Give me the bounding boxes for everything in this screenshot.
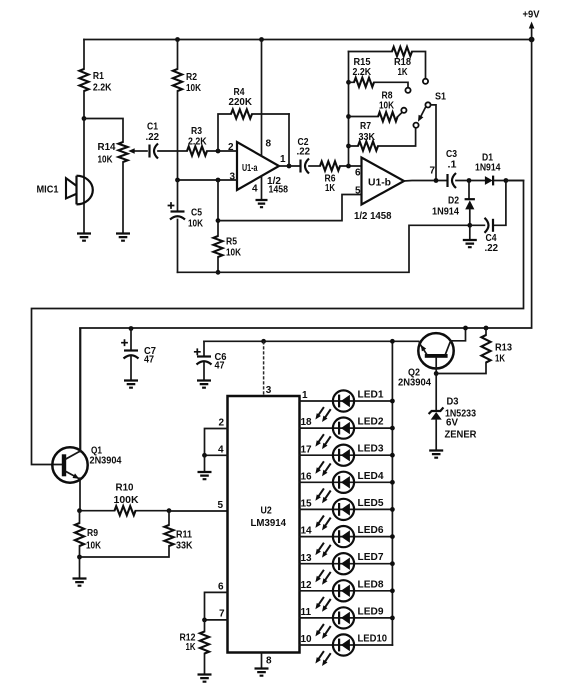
node pin3-R5 junction	[216, 178, 221, 183]
wire C2 to R6	[309, 165, 320, 167]
svg-text:R14: R14	[98, 142, 116, 153]
ground under D2	[469, 225, 471, 240]
node +9V rail right junction	[529, 37, 535, 43]
resistor R2	[175, 37, 180, 42]
svg-text:10K: 10K	[379, 101, 395, 112]
node LED1 bus junction	[390, 399, 395, 404]
node R10-R11 junction	[167, 508, 172, 513]
svg-text:1: 1	[280, 154, 286, 165]
resistor R6	[320, 161, 340, 170]
node pin3-R2 junction	[175, 178, 180, 183]
capacitor C6	[203, 341, 205, 380]
svg-text:1N914: 1N914	[432, 207, 459, 218]
potentiometer R14	[118, 142, 127, 162]
ground under D3	[429, 451, 443, 458]
wire gain-select chain vertical	[348, 52, 350, 167]
svg-text:220K: 220K	[229, 97, 253, 108]
svg-text:R5: R5	[226, 237, 237, 248]
svg-text:2.2K: 2.2K	[188, 137, 207, 148]
wire U1-a pin 3 input	[178, 179, 238, 181]
wire R5 node to U1-b pin 5	[218, 195, 362, 221]
svg-text:C1: C1	[147, 122, 158, 133]
wire D1 to output node	[493, 180, 523, 182]
svg-text:100K: 100K	[114, 495, 140, 506]
node D2 anode junction	[467, 223, 472, 228]
wire R14 to ground	[122, 162, 124, 234]
svg-text:2N3904: 2N3904	[398, 378, 431, 389]
svg-text:LM3914: LM3914	[251, 518, 287, 529]
wire U1-b output	[404, 180, 448, 183]
LED LED8	[300, 580, 393, 612]
LED LED3	[300, 445, 393, 477]
svg-text:1: 1	[302, 390, 308, 401]
svg-text:LED8: LED8	[358, 579, 384, 590]
svg-text:U2: U2	[261, 506, 273, 517]
node Q2 base junction	[434, 371, 439, 376]
wire R6 to U1-b pin 6	[340, 165, 362, 167]
pin 4 U1-a ground lead	[261, 177, 263, 201]
svg-text:R7: R7	[360, 121, 371, 132]
resistor R8	[346, 114, 351, 119]
svg-text:10: 10	[301, 634, 313, 645]
svg-text:LED5: LED5	[358, 498, 384, 509]
wire C5/R5 bottom to D2 ground node	[178, 225, 470, 272]
wire detector output to Q1 base	[32, 181, 524, 465]
svg-text:16: 16	[301, 471, 313, 482]
svg-text:2: 2	[219, 418, 225, 429]
svg-text:1K: 1K	[325, 183, 336, 194]
svg-text:2.2K: 2.2K	[93, 83, 112, 94]
wire R9-R11 bottom	[80, 546, 170, 557]
svg-text:R11: R11	[176, 530, 192, 541]
pin 7 U2	[205, 619, 228, 621]
node R3 output junction	[216, 149, 221, 154]
LED LED4	[300, 472, 393, 504]
op-amp U1-a	[237, 142, 279, 190]
svg-text:2.2K: 2.2K	[353, 67, 372, 78]
node LED bus top junction	[390, 339, 395, 344]
svg-text:15: 15	[301, 499, 313, 510]
switch S1	[425, 102, 430, 107]
node pin2-4 ground junction	[202, 453, 207, 458]
svg-text:C5: C5	[191, 208, 202, 219]
resistor R4	[218, 114, 289, 151]
svg-text:6: 6	[218, 582, 224, 593]
svg-text:U1-b: U1-b	[368, 178, 391, 189]
svg-text:S1: S1	[435, 92, 446, 103]
capacitor C3	[446, 174, 448, 187]
ground under MIC1	[77, 234, 91, 241]
terminal S1 contact b	[405, 88, 410, 93]
resistor R11	[168, 511, 170, 525]
node R9 bottom junction	[77, 555, 82, 560]
node U1-b output junction	[434, 178, 439, 183]
diode D2	[468, 181, 470, 199]
wire +9V top rail	[84, 39, 532, 41]
svg-text:12: 12	[301, 580, 313, 591]
node LED3 bus junction	[390, 453, 395, 458]
LED LED9	[300, 607, 393, 639]
svg-text:R3: R3	[191, 126, 202, 137]
svg-text:8: 8	[266, 656, 272, 667]
capacitor C5	[177, 180, 179, 272]
svg-text:6: 6	[355, 168, 361, 179]
wire U2 pin 3	[263, 341, 265, 396]
node Q1 emitter junction	[77, 508, 82, 513]
ground under C7	[124, 381, 138, 388]
transistor Q1	[52, 447, 87, 482]
ground under U2 pin 4	[204, 455, 206, 472]
ground under U1-a	[256, 200, 268, 207]
svg-text:.1: .1	[448, 160, 457, 171]
svg-text:D2: D2	[448, 196, 459, 207]
microphone MIC1	[83, 119, 85, 234]
resistor R5	[217, 180, 219, 272]
svg-text:ZENER: ZENER	[445, 430, 478, 441]
capacitor C7	[129, 326, 134, 331]
LED LED7	[300, 553, 393, 585]
transistor Q2	[418, 333, 453, 368]
LED LED10	[300, 634, 393, 666]
ground under R12	[198, 675, 212, 682]
wire divider to U2 pin 5	[169, 510, 228, 512]
capacitor C4	[470, 181, 506, 226]
node C3-D1-D2 junction	[467, 178, 472, 183]
svg-text:R9: R9	[87, 528, 98, 539]
wire R1 junction to R14 top	[84, 119, 123, 143]
LED LED6	[300, 526, 393, 558]
resistor R15	[346, 80, 351, 85]
svg-text:2N3904: 2N3904	[90, 456, 122, 467]
svg-text:LED4: LED4	[358, 471, 384, 482]
zener diode D3	[435, 374, 437, 411]
svg-text:47: 47	[144, 355, 154, 366]
node R1 bottom junction	[82, 116, 87, 121]
pin 6 U2	[205, 592, 228, 620]
resistor R13	[484, 326, 489, 331]
terminal S1 contact d	[413, 123, 418, 128]
svg-text:R10: R10	[116, 483, 134, 494]
pin 4 U2	[205, 454, 228, 456]
node R5 top junction	[216, 218, 221, 223]
svg-text:LED2: LED2	[358, 417, 384, 428]
svg-text:6V: 6V	[446, 418, 458, 429]
svg-text:4: 4	[218, 445, 224, 456]
svg-text:1/2 1458: 1/2 1458	[354, 211, 392, 222]
node Q2 collector junction	[463, 326, 468, 331]
svg-text:1K: 1K	[186, 642, 197, 653]
svg-text:11: 11	[301, 607, 312, 618]
resistor R10	[80, 510, 170, 512]
resistor R3	[187, 146, 207, 155]
terminal S1 contact c	[401, 108, 406, 113]
svg-text:1N914: 1N914	[475, 163, 501, 174]
node U2 pin3 junction	[261, 339, 266, 344]
svg-text:14: 14	[301, 526, 313, 537]
wire Q1 emitter	[79, 478, 81, 511]
wire C3 to D1	[456, 180, 485, 182]
svg-text:LED9: LED9	[358, 606, 384, 617]
svg-text:LED1: LED1	[358, 390, 384, 401]
IC U2 LM3914	[228, 396, 300, 653]
wire Q1 collector	[80, 329, 82, 451]
svg-text:47: 47	[215, 361, 225, 372]
capacitor C2	[299, 160, 301, 173]
svg-text:33K: 33K	[359, 132, 376, 143]
ground under U2 pin 8	[255, 669, 269, 676]
diode D1	[485, 176, 493, 185]
pin 8 U1-a power	[259, 37, 264, 42]
svg-text:17: 17	[301, 444, 313, 455]
node LED7 bus junction	[390, 561, 395, 566]
svg-text:10K: 10K	[226, 248, 242, 259]
svg-text:4: 4	[252, 184, 258, 195]
svg-text:1K: 1K	[398, 67, 409, 78]
svg-text:10K: 10K	[188, 219, 204, 230]
node LED6 bus junction	[390, 534, 395, 539]
wire U1-a output to C2	[279, 165, 301, 167]
svg-text:8: 8	[266, 139, 272, 150]
svg-text:U1-a: U1-a	[242, 163, 258, 174]
svg-text:LED6: LED6	[358, 525, 384, 536]
svg-text:LED10: LED10	[358, 634, 388, 645]
wire R3 to U1-a pin 2	[207, 150, 237, 152]
svg-text:LED3: LED3	[358, 444, 384, 455]
node D1 output junction	[504, 178, 509, 183]
LED LED5	[300, 499, 393, 531]
svg-text:7: 7	[430, 166, 436, 177]
resistor R9	[79, 511, 81, 557]
svg-text:5: 5	[218, 500, 224, 511]
svg-text:18: 18	[301, 417, 313, 428]
node LED4 bus junction	[390, 480, 395, 485]
svg-text:+9V: +9V	[523, 10, 540, 21]
resistor R18	[349, 52, 426, 79]
node LED9 bus junction	[390, 616, 395, 621]
svg-text:10K: 10K	[86, 541, 102, 552]
node LED5 bus junction	[390, 507, 395, 512]
wire C1 to R3	[158, 150, 187, 152]
ground under C6	[197, 381, 211, 388]
svg-text:MIC1: MIC1	[37, 185, 59, 196]
node pin6-7 junction	[202, 618, 207, 623]
svg-text:7: 7	[219, 609, 225, 620]
svg-text:R2: R2	[186, 72, 197, 83]
capacitor C1	[148, 145, 150, 158]
pin 2 U2	[205, 429, 228, 456]
wire feedback U1-a output to R4	[288, 114, 290, 166]
ground under R14	[116, 234, 130, 241]
node U1-a output	[287, 164, 292, 169]
wire lower +9V rail	[79, 329, 81, 452]
svg-text:C3: C3	[446, 149, 457, 160]
svg-text:10K: 10K	[98, 155, 114, 166]
svg-text:5: 5	[355, 186, 361, 197]
terminal S1 contact a	[423, 79, 428, 84]
wire S1 pole to U1-b output	[431, 105, 436, 181]
ground under R9	[79, 557, 81, 579]
op-amp U1-b	[362, 158, 405, 205]
resistor R12	[204, 620, 206, 675]
LED LED1	[300, 390, 393, 422]
svg-text:33K: 33K	[176, 541, 193, 552]
svg-text:10K: 10K	[186, 83, 202, 94]
power +9V arrow	[531, 26, 533, 40]
svg-text:13: 13	[301, 553, 313, 564]
svg-text:3: 3	[266, 385, 272, 396]
svg-text:D3: D3	[447, 397, 459, 408]
node LED2 bus junction	[390, 426, 395, 431]
svg-text:R13: R13	[495, 343, 512, 354]
node R5 bottom junction	[216, 270, 221, 275]
wire LED supply rail	[204, 340, 419, 342]
svg-text:.22: .22	[146, 132, 160, 143]
node LED8 bus junction	[390, 588, 395, 593]
LED LED2	[300, 418, 393, 450]
resistor R7	[346, 144, 351, 149]
svg-text:LED7: LED7	[358, 552, 384, 563]
svg-text:2: 2	[228, 142, 234, 153]
pin 8 U2 ground lead	[261, 653, 263, 669]
svg-text:.22: .22	[485, 243, 499, 254]
wire +9V right drop to lower rail	[80, 40, 532, 329]
node U1-b input junction	[346, 164, 351, 169]
resistor R1	[83, 40, 85, 119]
svg-text:1K: 1K	[495, 354, 506, 365]
svg-text:R1: R1	[93, 71, 104, 82]
wire LED anode bus	[391, 341, 393, 645]
svg-text:.22: .22	[297, 147, 311, 158]
svg-text:1458: 1458	[269, 185, 289, 196]
